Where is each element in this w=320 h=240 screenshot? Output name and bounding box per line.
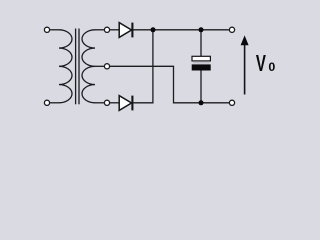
transformer core — [76, 29, 79, 105]
svg-text:0: 0 — [268, 60, 275, 74]
wire (D2 cathode up to + node) — [133, 30, 153, 103]
wire (bottom terminal to D2 anode) — [110, 102, 120, 104]
wire (primary bottom terminal to winding) — [50, 102, 59, 104]
wire (capacitor top lead) — [200, 30, 202, 57]
transformer secondary terminal (bottom) — [104, 100, 109, 105]
wire (secondary center tap to terminal) — [95, 65, 104, 67]
junction (capacitor bottom on - rail) — [199, 100, 204, 105]
svg-text:V: V — [256, 51, 266, 77]
wire (capacitor node to output terminal) — [201, 29, 229, 31]
transformer secondary terminal (top) — [104, 27, 109, 32]
junction (capacitor top on + rail) — [199, 27, 204, 32]
label V0 — [256, 51, 276, 77]
transformer primary terminal (top) — [44, 27, 49, 32]
transformer primary terminal (bottom) — [44, 100, 49, 105]
output terminal + — [229, 27, 234, 32]
wire (center tap right, down, to bottom rail) — [110, 66, 201, 103]
transformer secondary center-tap terminal — [104, 64, 109, 69]
wire (capacitor bottom lead) — [200, 70, 202, 102]
capacitor C (polarized) — [192, 56, 211, 70]
wire (secondary bottom to terminal) — [95, 102, 104, 104]
wire (+ node to capacitor node) — [153, 29, 201, 31]
wire (D1 cathode to + node) — [133, 29, 153, 31]
junction (D1/D2 cathodes, + rail) — [151, 27, 156, 32]
diode D2 — [119, 96, 132, 111]
Vo arrow — [241, 35, 249, 94]
output terminal - — [229, 100, 234, 105]
transformer secondary winding — [82, 30, 95, 103]
wire (secondary top to terminal) — [95, 29, 104, 31]
wire (primary top terminal to winding) — [50, 29, 59, 31]
wire (bottom node to output terminal) — [201, 102, 229, 104]
wire (top terminal to D1 anode) — [110, 29, 120, 31]
transformer primary winding — [59, 30, 72, 103]
diode D1 — [119, 23, 132, 38]
